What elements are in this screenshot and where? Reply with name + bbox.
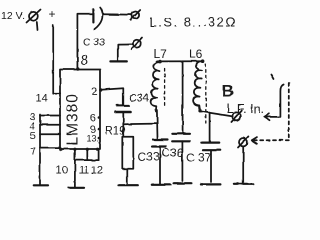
junction L6 bottom xyxy=(198,109,201,112)
svg-text:11: 11 xyxy=(79,165,90,177)
pin 11 stub xyxy=(86,149,88,160)
terminal LS plus xyxy=(131,10,140,20)
ground C37 xyxy=(201,183,221,185)
pin 3 stub xyxy=(40,115,60,117)
wire C33 to LS terminal xyxy=(103,13,132,15)
ground C36 xyxy=(174,182,192,184)
pin 6 dot xyxy=(98,116,101,119)
svg-text:L7: L7 xyxy=(154,47,168,61)
capacitor C34 xyxy=(116,105,131,112)
wire pin 2 to C34 xyxy=(101,88,123,105)
svg-text:14: 14 xyxy=(36,93,48,105)
junction corner pin xyxy=(96,148,99,151)
wire R19 to ground xyxy=(126,169,128,183)
wire pin 8 to C33 xyxy=(77,14,93,69)
wire V+ to pin 14 xyxy=(53,25,60,94)
junction pin 8 xyxy=(76,67,79,70)
junction pin 10 xyxy=(59,148,62,151)
capacitor C33 bottom xyxy=(152,140,168,147)
svg-text:5: 5 xyxy=(30,130,36,142)
svg-text:2: 2 xyxy=(92,86,98,98)
pin 4 stub xyxy=(40,124,60,126)
wire L6 node to C37 xyxy=(209,113,211,143)
wire top bar to C36 xyxy=(182,62,184,134)
svg-text:12 V.: 12 V. xyxy=(1,10,25,22)
wire C33b to ground xyxy=(159,147,161,184)
pin 12 stub xyxy=(98,149,100,160)
junction pin 11 xyxy=(73,148,76,151)
capacitor C37 xyxy=(202,143,220,151)
wire left ground bus xyxy=(39,115,41,185)
ground R19 xyxy=(119,184,138,186)
svg-text:L.S. 8...32Ω: L.S. 8...32Ω xyxy=(150,15,237,30)
wire top bar xyxy=(157,60,204,62)
svg-text:LM380: LM380 xyxy=(65,93,82,145)
svg-text:C33: C33 xyxy=(138,150,160,164)
junction pin 12 xyxy=(86,148,89,151)
wire C36 to ground xyxy=(181,141,183,181)
svg-text:6: 6 xyxy=(90,113,96,125)
junction L7 top xyxy=(158,60,162,64)
ground near LS xyxy=(110,60,126,62)
wire C34 to R19 xyxy=(122,113,124,137)
wire bottom pin bus xyxy=(75,159,99,161)
wire dashed link horizontal xyxy=(252,137,289,144)
inductor L6 xyxy=(193,61,203,111)
ground left bus xyxy=(34,184,48,186)
terminal LS minus xyxy=(132,38,142,49)
svg-text:L.F. In.: L.F. In. xyxy=(227,102,265,116)
resistor R19 xyxy=(122,137,133,169)
wire feedback arrow xyxy=(264,75,283,121)
wire dashed link vertical xyxy=(288,83,290,139)
svg-text:7: 7 xyxy=(30,146,36,158)
pin 9 dot xyxy=(98,128,101,131)
wire bottom pins to ground xyxy=(74,149,76,187)
capacitor C36 xyxy=(172,134,190,142)
wire terminal aux to ground xyxy=(242,146,244,183)
wire C37 to ground xyxy=(210,150,212,182)
svg-text:C34: C34 xyxy=(129,93,149,105)
terminal 12V input xyxy=(27,10,41,30)
op-amp U1 LM380 body xyxy=(60,70,100,150)
junction L6 top xyxy=(201,59,205,63)
svg-text:13.: 13. xyxy=(87,134,100,144)
pin 7 stub xyxy=(40,147,60,149)
svg-text:10: 10 xyxy=(56,165,68,177)
svg-text:C 33: C 33 xyxy=(83,37,105,49)
junction pin 2 xyxy=(99,88,102,91)
svg-text:C36: C36 xyxy=(162,146,184,160)
core L7 dashed xyxy=(164,69,166,108)
wire LS minus to ground xyxy=(118,44,133,60)
svg-text:L6: L6 xyxy=(189,47,203,61)
svg-text:B: B xyxy=(222,82,234,101)
wire C34 node to L7 bottom xyxy=(123,123,157,126)
capacitor C33 xyxy=(93,8,102,30)
ground terminal aux xyxy=(234,183,253,185)
wire L6 bottom to LF terminal xyxy=(200,111,233,116)
inductor L7 xyxy=(151,62,161,111)
svg-text:R19: R19 xyxy=(105,126,126,138)
svg-text:C 37: C 37 xyxy=(186,151,212,165)
terminal LF input xyxy=(231,111,241,122)
core L6 dashed xyxy=(205,64,207,124)
wire L7 bottom to C33b xyxy=(156,111,159,139)
svg-text:12: 12 xyxy=(91,165,103,177)
terminal aux xyxy=(238,136,248,147)
pin 5 stub xyxy=(40,133,60,135)
ground bottom pins xyxy=(69,187,85,189)
svg-text:+: + xyxy=(49,7,56,21)
ground C33b xyxy=(152,184,171,186)
svg-text:8: 8 xyxy=(81,53,89,68)
pin 13 dot xyxy=(98,137,101,140)
